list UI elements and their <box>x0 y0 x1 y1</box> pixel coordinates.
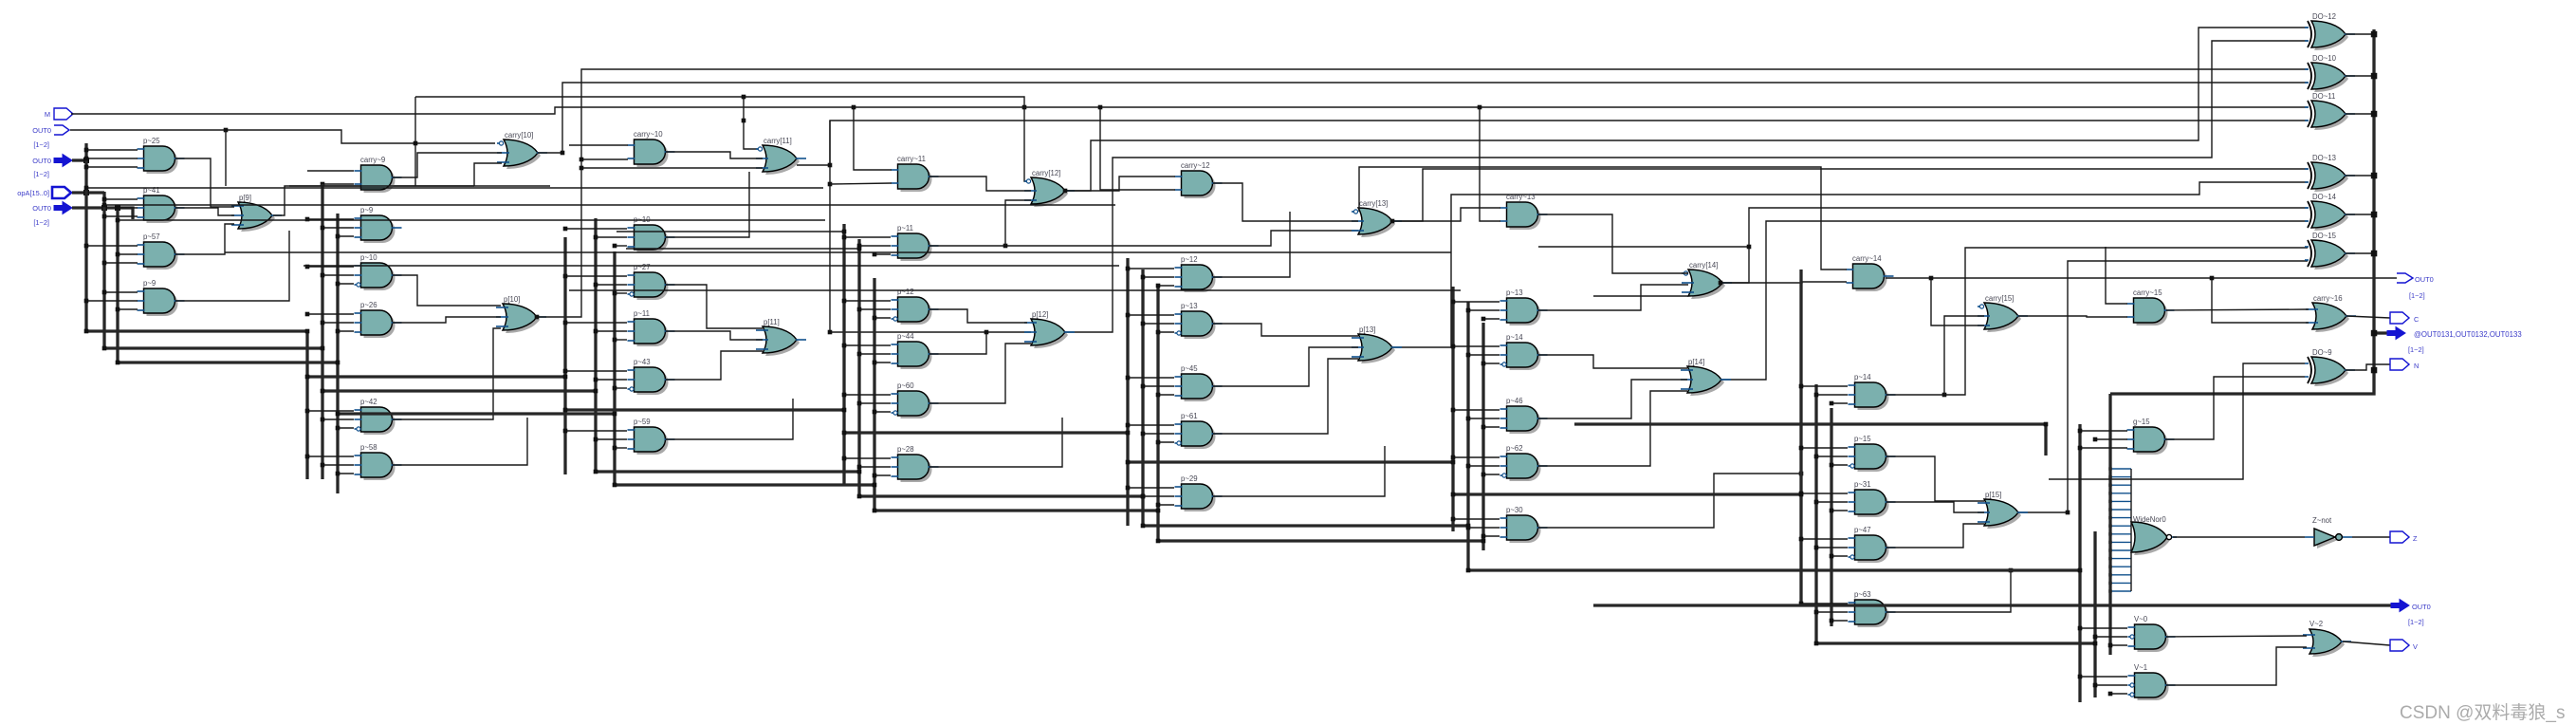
wire p~14 to carry[15] <box>1886 316 1984 395</box>
bus vertical x=340 <box>321 184 323 479</box>
svg-text:OUT0: OUT0 <box>2412 603 2431 611</box>
junction <box>1156 539 1161 544</box>
and-gate p~13 <box>1175 302 1223 339</box>
junction <box>613 446 617 451</box>
bus vertical x=91 <box>84 143 87 331</box>
junction <box>1814 455 1819 459</box>
junction <box>842 299 847 304</box>
wire tap <box>1801 603 1848 604</box>
junction <box>2371 212 2378 218</box>
junction <box>2108 582 2111 585</box>
junction <box>563 408 568 413</box>
junction <box>2108 525 2111 528</box>
junction <box>842 230 847 234</box>
svg-text:p~11: p~11 <box>634 309 650 318</box>
junction <box>613 412 617 417</box>
svg-text:carry~15: carry~15 <box>2133 288 2162 297</box>
wire p~29 out <box>1213 446 1385 496</box>
junction <box>84 165 89 170</box>
or-gate carry[12] <box>1024 169 1075 207</box>
and-gate p~27 <box>628 263 675 300</box>
and-gate carry~13 <box>1500 193 1548 230</box>
wire tap <box>596 438 627 440</box>
junction <box>1830 401 1834 406</box>
junction <box>2108 541 2111 544</box>
svg-text:p~15: p~15 <box>1854 435 1871 443</box>
wire tap <box>307 218 354 220</box>
bus OUT0 bottom <box>1593 604 2391 606</box>
or-gate p[12] <box>1024 310 1075 348</box>
wire tap <box>859 353 891 355</box>
svg-text:OUT0: OUT0 <box>32 157 51 165</box>
wire p~46 to p[14] <box>1538 380 1687 418</box>
svg-text:p~58: p~58 <box>360 443 377 452</box>
wire tap <box>1816 394 1848 396</box>
junction <box>116 252 120 257</box>
junction <box>336 472 340 476</box>
wire tap to carry[15] <box>1931 278 1984 325</box>
wire band260 <box>1538 246 1749 248</box>
junction <box>857 352 862 357</box>
junction <box>1830 554 1834 559</box>
or-gate carry[14] <box>1682 261 1732 299</box>
wire tap to carry[12] <box>1005 200 1031 246</box>
junction <box>2371 367 2378 374</box>
junction <box>1126 460 1131 465</box>
wire tap <box>615 339 627 341</box>
junction <box>563 375 568 380</box>
svg-text:carry[13]: carry[13] <box>1359 199 1388 208</box>
junction <box>84 244 89 249</box>
and-gate V~1 <box>2128 663 2176 700</box>
junction <box>2108 692 2113 697</box>
wire drop <box>225 130 227 186</box>
wire tap <box>307 170 354 172</box>
wire tap <box>1158 504 1174 506</box>
and-gate p~41 <box>138 186 185 223</box>
wire tap <box>859 308 891 310</box>
output port Z <box>2390 531 2409 543</box>
junction <box>828 330 833 335</box>
bus h521 <box>1453 493 1801 495</box>
junction <box>2371 330 2378 337</box>
bus h367 <box>104 346 322 349</box>
junction <box>2078 568 2083 573</box>
wire tap <box>104 198 138 200</box>
wire net DO12b <box>1063 41 2308 332</box>
wire tap <box>2095 636 2127 638</box>
wire tap <box>307 410 354 412</box>
wire tap <box>1468 527 1500 529</box>
wire tap <box>565 322 627 324</box>
junction <box>2108 643 2113 648</box>
and-gate p~31 <box>1849 480 1896 517</box>
wire tap <box>859 466 891 468</box>
bus h570 <box>1158 539 1483 542</box>
junction <box>828 182 833 187</box>
svg-text:V~2: V~2 <box>2309 620 2323 628</box>
wire band232 <box>118 219 825 221</box>
junction <box>116 307 120 312</box>
or-gate p[9] <box>231 194 282 232</box>
svg-text:p~9: p~9 <box>360 206 373 214</box>
junction <box>1126 423 1131 428</box>
and-gate p~42 <box>355 398 402 435</box>
junction <box>1141 524 1146 529</box>
junction <box>2108 516 2111 519</box>
junction <box>102 197 107 202</box>
bubble WideNor0 <box>2166 534 2171 539</box>
and-gate carry~10 <box>628 130 675 167</box>
junction <box>580 158 584 162</box>
junction <box>1098 105 1103 110</box>
junction <box>1481 317 1486 322</box>
svg-text:p~29: p~29 <box>1181 474 1198 483</box>
svg-text:p~63: p~63 <box>1854 590 1871 599</box>
junction <box>1126 431 1131 436</box>
svg-text:p~10: p~10 <box>360 253 377 262</box>
junction <box>563 369 568 374</box>
bus h382 <box>118 361 338 363</box>
bus h511 <box>615 483 874 486</box>
junction <box>1126 376 1131 381</box>
wire tap <box>1128 314 1174 316</box>
wire tap <box>1483 426 1500 428</box>
wire tap <box>1158 331 1174 333</box>
wire tap <box>118 308 138 310</box>
bus vertical x=628 <box>594 218 597 472</box>
junction <box>1141 275 1146 280</box>
wire tap <box>844 457 891 459</box>
wire tap <box>118 207 138 209</box>
wire tap <box>565 430 627 432</box>
wire tap <box>596 379 627 381</box>
svg-text:p~30: p~30 <box>1506 506 1523 514</box>
wire tap <box>2080 447 2127 449</box>
svg-text:p~61: p~61 <box>1181 412 1198 420</box>
wire p~44 join <box>929 332 986 354</box>
wire net DO12a <box>1065 28 2308 191</box>
svg-text:carry~14: carry~14 <box>1852 254 1882 263</box>
wire tap <box>1816 611 1848 613</box>
wire p~57 to p[9] <box>175 224 234 254</box>
wire tap <box>615 387 627 389</box>
wire p~25 to p[9] <box>175 158 234 207</box>
junction <box>102 290 107 295</box>
wire tap <box>1158 285 1174 287</box>
wire tap <box>859 402 891 404</box>
svg-text:DO~10: DO~10 <box>2312 54 2337 63</box>
wire p10net to carry[11] <box>581 167 763 169</box>
wire tap <box>859 245 891 247</box>
wire carry10 in1 <box>569 144 628 146</box>
junction <box>613 483 617 488</box>
junction <box>2093 437 2098 442</box>
wire p~11 to carry[13] <box>929 231 1358 246</box>
wire tap carry~15 <box>2106 247 2127 304</box>
wire tap <box>844 394 891 396</box>
wire tap <box>338 283 354 285</box>
bus h678 <box>1816 641 2095 644</box>
bus h432 <box>565 408 844 411</box>
junction <box>305 312 310 317</box>
junction <box>2066 511 2070 515</box>
wire tap <box>104 215 138 217</box>
junction <box>1747 245 1752 250</box>
input port opA[15..0] <box>52 187 71 198</box>
and-gate carry~15 <box>2127 288 2175 325</box>
svg-text:p~59: p~59 <box>634 418 651 426</box>
wire tap <box>86 166 138 168</box>
svg-text:p~14: p~14 <box>1506 333 1523 342</box>
junction <box>857 307 862 312</box>
junction <box>1481 539 1486 544</box>
junction <box>2371 31 2378 38</box>
output port OUT0 (right) <box>2397 273 2413 283</box>
junction <box>2078 626 2083 631</box>
svg-text:p~25: p~25 <box>143 137 160 145</box>
output port V <box>2390 640 2409 651</box>
wire p~30 out <box>1538 474 1801 528</box>
and-gate p~15 <box>1849 435 1896 472</box>
svg-text:[1~2]: [1~2] <box>33 170 49 178</box>
junction <box>1466 353 1471 358</box>
wire p[9] out <box>273 186 550 215</box>
wire tap <box>2110 644 2127 646</box>
junction <box>1141 494 1146 499</box>
xor-gate DO~13 <box>2305 154 2355 192</box>
junction <box>115 205 120 211</box>
xor-gate DO~15 <box>2305 232 2355 270</box>
wire tap <box>596 236 627 238</box>
junction <box>842 431 847 436</box>
junction <box>321 389 325 394</box>
junction <box>1466 568 1471 573</box>
wire tap <box>874 474 891 476</box>
wire feed col4 <box>616 231 844 232</box>
wire tap <box>1143 433 1174 435</box>
wire tap <box>322 464 354 466</box>
svg-text:carry[11]: carry[11] <box>764 137 792 145</box>
junction <box>102 261 107 266</box>
and-gate p~12 <box>892 288 939 325</box>
svg-text:p[13]: p[13] <box>1359 325 1375 334</box>
wire to carry[10] b <box>289 185 474 187</box>
wire carry~15 to carry~16 <box>2166 309 2309 310</box>
wire carry10 in2 <box>581 158 628 160</box>
or-gate carry[10] <box>497 131 547 169</box>
wire p~13 to carry[14] <box>1538 285 1688 310</box>
svg-text:p[11]: p[11] <box>764 318 780 326</box>
wire p~61 to p[13] <box>1213 359 1358 434</box>
junction <box>2108 492 2111 494</box>
svg-text:N: N <box>2414 362 2419 370</box>
wire net M long <box>71 107 2308 114</box>
wire p~10 to p[10] <box>393 275 501 306</box>
wire tap <box>1816 547 1848 548</box>
junction <box>984 330 989 335</box>
junction <box>305 217 310 222</box>
bus vertical x=1564 <box>1481 323 1484 550</box>
wire g~15 to DO~9 <box>2165 377 2305 439</box>
junction <box>1481 425 1486 430</box>
junction <box>321 321 325 325</box>
wire tap <box>1143 276 1174 278</box>
junction <box>1022 105 1027 110</box>
and-gate V~0 <box>2128 615 2176 652</box>
junction <box>1814 393 1819 398</box>
and-gate p~45 <box>1175 364 1223 401</box>
svg-text:p~13: p~13 <box>1506 288 1523 297</box>
svg-text:p[12]: p[12] <box>1032 310 1048 319</box>
junction <box>842 344 847 348</box>
svg-text:p~62: p~62 <box>1506 444 1523 453</box>
junction <box>1141 322 1146 326</box>
junction <box>857 494 862 499</box>
junction <box>580 166 584 171</box>
wire p~15 to p[15] <box>1886 456 1984 501</box>
svg-text:V: V <box>2413 642 2418 651</box>
svg-text:[1~2]: [1~2] <box>33 140 49 149</box>
svg-text:WideNor0: WideNor0 <box>2133 515 2166 524</box>
svg-text:DO~14: DO~14 <box>2312 193 2337 201</box>
junction <box>1451 493 1456 497</box>
svg-text:OUT0: OUT0 <box>32 204 51 213</box>
wire band280 <box>304 265 1119 267</box>
wire net DO10a <box>537 69 2308 317</box>
xor-gate DO~14 <box>2305 193 2355 231</box>
junction <box>2078 675 2083 679</box>
wire tap <box>565 370 627 372</box>
wire band266 <box>225 251 1451 253</box>
junction <box>1466 526 1471 530</box>
wire tap <box>322 183 354 185</box>
junction <box>1466 464 1471 469</box>
junction <box>101 205 107 211</box>
svg-text:p~27: p~27 <box>634 263 651 271</box>
junction <box>84 299 89 304</box>
junction <box>1814 500 1819 505</box>
wire tap <box>307 266 354 268</box>
junction <box>594 470 598 474</box>
junction <box>2108 566 2111 568</box>
junction <box>2108 508 2111 511</box>
wire p~12 to p[12] <box>929 309 1027 323</box>
wire tap <box>1468 309 1500 311</box>
svg-text:p~42: p~42 <box>360 398 377 406</box>
wire tap <box>1468 354 1500 356</box>
and-gate p~11 <box>892 224 939 261</box>
junction <box>83 190 89 195</box>
svg-text:p~45: p~45 <box>1181 364 1198 373</box>
junction <box>1799 493 1804 497</box>
wire OUT0 thin <box>70 130 495 143</box>
junction <box>321 463 325 468</box>
wire tap <box>1468 465 1500 467</box>
or-gate carry[11] <box>756 137 806 175</box>
junction <box>336 282 340 287</box>
wire DO~10 out <box>2346 75 2374 77</box>
and-gate p~59 <box>628 418 675 455</box>
junction <box>116 206 120 211</box>
wire tap <box>86 149 138 151</box>
or-gate p[15] <box>1978 491 2028 529</box>
junction <box>305 375 310 380</box>
svg-text:p~60: p~60 <box>897 381 914 390</box>
junction <box>563 227 568 232</box>
wire carry[10] out <box>538 152 562 154</box>
junction <box>873 252 877 257</box>
svg-text:p[14]: p[14] <box>1688 358 1704 366</box>
junction <box>2093 635 2098 640</box>
junction <box>1156 393 1161 398</box>
wire tap <box>1483 318 1500 320</box>
wire Z~not to Z <box>2352 536 2390 538</box>
wire tap <box>1816 501 1848 503</box>
wire DO~11 out <box>2346 113 2374 115</box>
wire p~41 to p[9] <box>175 208 234 215</box>
svg-text:DO~12: DO~12 <box>2312 12 2336 21</box>
wire DO~13 out <box>2346 175 2374 177</box>
junction <box>2093 641 2098 646</box>
junction <box>2108 500 2111 503</box>
junction <box>2108 557 2111 560</box>
wire v875 branch <box>830 121 1031 332</box>
svg-text:OUT0: OUT0 <box>2415 275 2434 284</box>
wire tap <box>1801 447 1848 449</box>
wire M tap carry~13 <box>1480 107 1500 221</box>
wire tap <box>615 245 627 247</box>
bus vertical x=922 <box>873 278 875 511</box>
wide-nor input comb <box>2111 469 2131 591</box>
wire tap <box>1831 510 1848 511</box>
wire carry~13 to carry[14] <box>1538 214 1688 273</box>
junction <box>561 151 565 156</box>
and-gate p~47 <box>1849 526 1896 563</box>
wire p~27 to p[11] <box>666 285 763 328</box>
junction <box>842 235 847 240</box>
bus wire OUT0b <box>72 208 133 219</box>
junction <box>1451 408 1456 413</box>
wire net DO13b <box>1390 182 2308 347</box>
bus h538 <box>874 509 1158 511</box>
wire to DO~9 in1 <box>2049 363 2305 479</box>
junction <box>2371 73 2378 80</box>
wire tap <box>104 291 138 293</box>
and-gate p~14 <box>1849 373 1896 410</box>
wire carry~10 to carry[11] <box>666 152 763 158</box>
junction <box>1466 308 1471 313</box>
junction <box>2371 173 2378 179</box>
wire tap <box>1143 495 1174 497</box>
not-gate Z~not <box>2305 516 2352 548</box>
and-gate p~12 <box>1175 255 1223 292</box>
junction <box>594 329 598 334</box>
wire V~2 to V <box>2343 641 2390 645</box>
wire tap <box>596 330 627 332</box>
junction <box>1390 219 1395 224</box>
and-gate p~28 <box>892 445 939 482</box>
wire tap <box>338 330 354 332</box>
junction <box>84 148 89 153</box>
wire tap <box>874 317 891 319</box>
wire carry~12 to carry[13] <box>1213 183 1358 221</box>
junction <box>1466 417 1471 421</box>
wire p~31 to p[15] <box>1886 502 1984 512</box>
junction <box>857 247 862 251</box>
wire Mbar y102 <box>415 97 1029 181</box>
and-gate p~9 (col1) <box>138 279 185 316</box>
